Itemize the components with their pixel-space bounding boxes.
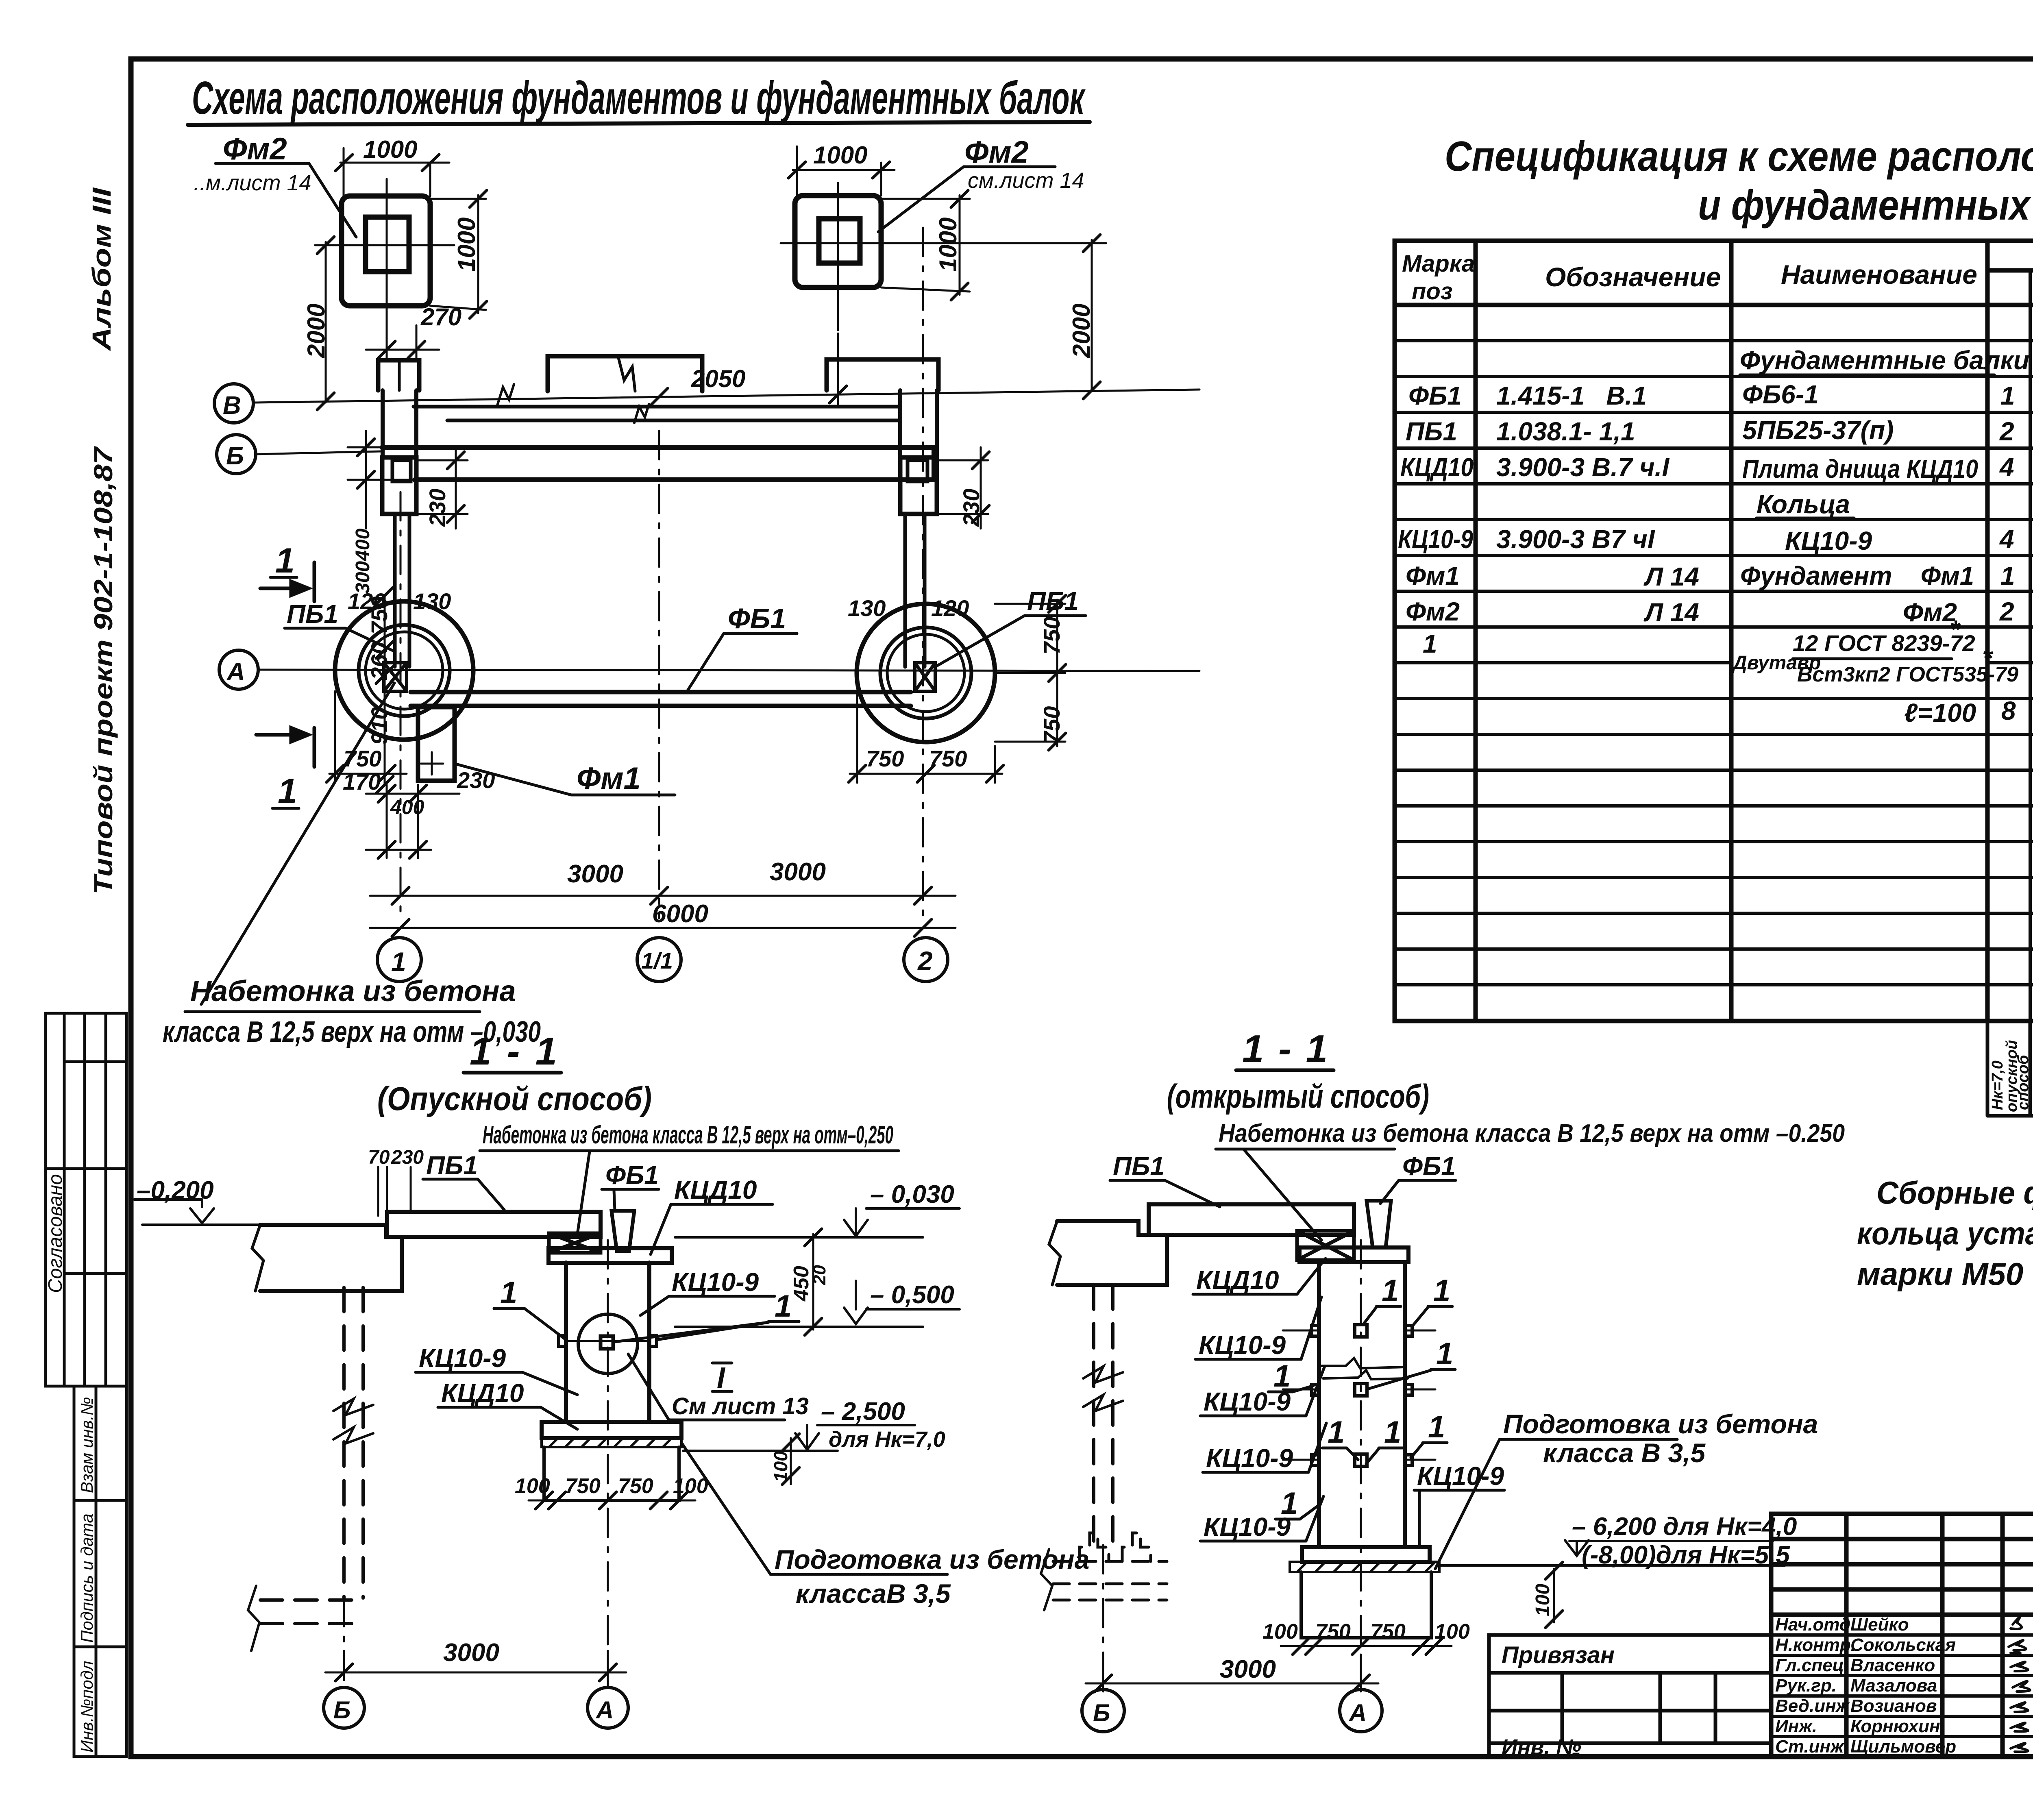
svg-text:ℓ=100: ℓ=100 [1904, 698, 1976, 727]
Фм1 foundation below left well [418, 707, 455, 781]
svg-text:4: 4 [1999, 525, 2014, 554]
svg-text:1000: 1000 [363, 136, 417, 163]
svg-text:ПБ1: ПБ1 [287, 599, 338, 629]
small column verticals [2030, 270, 2033, 1021]
svg-text:Типовой проект 902-1-108,87: Типовой проект 902-1-108,87 [89, 446, 118, 895]
svg-text:ФБ1: ФБ1 [605, 1160, 659, 1190]
well right: outer circle [857, 604, 995, 742]
beam ФБ1 between wells [411, 692, 911, 706]
svg-text:750: 750 [366, 597, 392, 634]
svg-text:и фундаментных балок: и фундаментных балок [1698, 182, 2033, 229]
hole circle in shaft [578, 1314, 638, 1374]
svg-text:– 2,500: – 2,500 [821, 1398, 905, 1426]
КЦ10-9 right label [672, 1267, 759, 1297]
svg-text:Согласовано: Согласовано [45, 1174, 66, 1293]
well right: inner rings [880, 627, 971, 718]
svg-text:Корнюхин: Корнюхин [1850, 1716, 1940, 1736]
axis B bubble [214, 384, 253, 423]
КЦД10 label [1196, 1265, 1279, 1295]
svg-text:2000: 2000 [303, 304, 330, 358]
svg-text:1: 1 [391, 947, 406, 977]
bottom plate [542, 1422, 681, 1438]
dim row 6000 [370, 919, 956, 936]
svg-text:КЦ10-9: КЦ10-9 [672, 1267, 759, 1297]
svg-text:1: 1 [500, 1276, 517, 1310]
svg-text:1.415-1 В.1: 1.415-1 В.1 [1496, 381, 1647, 410]
svg-text:2: 2 [1999, 417, 2014, 446]
axis 1 vertical dash-dot [400, 492, 402, 918]
dim 270 at axis 1 [366, 325, 439, 360]
svg-text:Возианов: Возианов [1850, 1696, 1937, 1716]
dim 300,400 left of beam [348, 431, 415, 529]
подготовка strip hatched [1290, 1562, 1439, 1572]
vertical dim chain right of right well: 750,750 [995, 595, 1066, 750]
КЦ10-9 right label [1417, 1461, 1504, 1491]
main title block frame [1771, 1514, 2033, 1757]
svg-text:170: 170 [343, 769, 381, 795]
column right above band [900, 390, 937, 457]
shaft centerline [607, 1240, 609, 1687]
svg-text:марки М50: марки М50 [1857, 1256, 2023, 1292]
svg-text:А: А [595, 1696, 614, 1724]
pit outline [544, 1447, 679, 1500]
svg-text:классаВ 3,5: классаВ 3,5 [796, 1578, 951, 1609]
svg-text:1-1: 1-1 [1242, 1027, 1328, 1071]
набетонка leader [1244, 1150, 1321, 1240]
svg-text:3.900-3 В.7 ч.I: 3.900-3 В.7 ч.I [1496, 453, 1669, 482]
svg-text:1000: 1000 [934, 218, 962, 272]
svg-text:750: 750 [565, 1474, 601, 1498]
подготовка callout [775, 1544, 1089, 1609]
dim 2000 vert, right footing to axis B [907, 235, 1106, 399]
wall tab 2 above axis B (with break) [548, 356, 702, 391]
svg-text:Фм1: Фм1 [1406, 561, 1460, 590]
svg-text:КЦ10-9: КЦ10-9 [1199, 1330, 1286, 1360]
svg-text:6000: 6000 [652, 900, 708, 928]
svg-text:Плита днища КЦД10: Плита днища КЦД10 [1742, 454, 1978, 483]
svg-text:Фм1: Фм1 [577, 761, 641, 796]
well shaft walls [566, 1263, 649, 1422]
callout 1 left [500, 1276, 517, 1310]
svg-text:Фундаментные балки: Фундаментные балки [1740, 346, 2029, 375]
svg-text:Фм2: Фм2 [223, 132, 287, 166]
Фм2 left label shelf + leader [215, 163, 356, 237]
dim 2050 between axis 1/1 and right footing [651, 333, 847, 407]
svg-text:1: 1 [1433, 1274, 1450, 1308]
svg-text:3000: 3000 [443, 1639, 499, 1667]
dashed footing at bottom (stepped) [1053, 1533, 1167, 1600]
svg-text:способ: способ [2015, 1054, 2032, 1110]
column left above band [383, 390, 416, 457]
svg-text:1: 1 [278, 772, 297, 811]
group heading underlines [1740, 374, 1994, 377]
table header texts [1402, 245, 2033, 308]
svg-text:для Нк=7,0: для Нк=7,0 [829, 1427, 945, 1452]
svg-text:А: А [226, 658, 245, 686]
svg-text:*: * [1950, 615, 1961, 644]
foundation Фм2 left: inner square [366, 217, 409, 272]
signature table verticals [1844, 1514, 1849, 1757]
grid bubble 2 [904, 938, 948, 982]
svg-text:2000: 2000 [1068, 304, 1095, 358]
svg-text:1.038.1- 1,1: 1.038.1- 1,1 [1496, 417, 1635, 446]
svg-text:8: 8 [2001, 696, 2016, 725]
dim 750 under left well [326, 691, 407, 783]
break marks on dashed wall [333, 1399, 373, 1415]
svg-text:260: 260 [366, 642, 392, 680]
svg-text:2050: 2050 [691, 365, 745, 392]
svg-text:Гл.спец: Гл.спец [1775, 1655, 1844, 1675]
svg-text:ПБ1: ПБ1 [1027, 586, 1079, 616]
svg-text:750: 750 [1370, 1620, 1406, 1644]
ПБ1 label left [287, 599, 338, 629]
Фм2 right label [964, 135, 1084, 193]
svg-text:1: 1 [1423, 629, 1437, 658]
svg-text:1: 1 [1328, 1415, 1345, 1450]
svg-text:Схема расположения фундаментов: Схема расположения фундаментов и фундаме… [192, 72, 1086, 124]
level -0,500 [870, 1281, 954, 1309]
svg-text:Наименование: Наименование [1781, 259, 1977, 290]
wall tab 3 above axis B [827, 359, 938, 390]
axis bubble А [588, 1687, 628, 1728]
см лист 13 [672, 1393, 809, 1419]
svg-text:Кольца: Кольца [1757, 490, 1850, 519]
dim 1000 vert, left footing [430, 190, 487, 318]
ПБ1 label [426, 1151, 478, 1180]
Согласовано stamp block [45, 1013, 126, 1386]
svg-text:ПБ1: ПБ1 [1113, 1152, 1165, 1181]
svg-text:2: 2 [1999, 597, 2014, 626]
svg-text:750: 750 [1039, 706, 1064, 744]
axis Б centerline [1102, 1545, 1104, 1688]
Фм2 right label shelf + leader [878, 167, 1055, 232]
svg-text:1: 1 [1428, 1410, 1445, 1444]
dim row 3000/3000 [370, 887, 956, 904]
svg-text:Обозначение: Обозначение [1545, 262, 1721, 292]
dim 1000 vert, right footing [881, 190, 970, 300]
subheader line under Кол на исполн [1987, 268, 2033, 273]
svg-text:КЦ10-9: КЦ10-9 [1785, 526, 1872, 555]
svg-text:Б: Б [226, 442, 244, 470]
svg-text:КЦ10-9: КЦ10-9 [419, 1343, 506, 1373]
svg-text:1: 1 [2000, 381, 2015, 410]
dim 3000 bottom [1086, 1659, 1378, 1692]
svg-text:поз: поз [1412, 278, 1452, 305]
подготовка callout right [1503, 1409, 1818, 1468]
joint plate center [601, 1336, 613, 1349]
section header 1-1 [377, 1030, 652, 1117]
well cap plate [1299, 1247, 1408, 1262]
dashed footing at bottom [260, 1600, 363, 1624]
dim 3000 bottom [325, 1651, 626, 1681]
plan title [192, 72, 1086, 124]
existing wall left [252, 1225, 402, 1291]
svg-text:Фм2: Фм2 [1903, 598, 1957, 627]
svg-text:230: 230 [457, 767, 495, 793]
svg-text:Сокольская: Сокольская [1850, 1635, 1956, 1655]
svg-text:Нач.отд.: Нач.отд. [1775, 1615, 1855, 1635]
joint line through shaft [566, 1340, 649, 1342]
well left: outer circle [335, 601, 473, 740]
joint level 2 [1283, 1384, 1435, 1396]
svg-text:КЦ10-9: КЦ10-9 [1417, 1461, 1504, 1491]
ПБ1 label right [1027, 586, 1079, 616]
svg-text:100: 100 [515, 1474, 550, 1498]
svg-text:1: 1 [1436, 1337, 1453, 1371]
beam end splice right (hatched) [915, 663, 935, 691]
ПБ1 slab strip in plan (upper) [414, 407, 900, 420]
svg-text:Б: Б [1093, 1699, 1110, 1726]
svg-text:– 0,030: – 0,030 [870, 1180, 954, 1208]
набетонка X-box [1297, 1231, 1354, 1260]
svg-text:ФБ1: ФБ1 [728, 603, 786, 634]
svg-text:20: 20 [810, 1265, 829, 1285]
svg-text:Инв.№подл: Инв.№подл [77, 1661, 96, 1753]
tail vertical captions [1989, 1023, 2033, 1113]
level -0,030 [870, 1180, 954, 1208]
break mark on slab strip [634, 404, 649, 423]
Фм2 left label [194, 132, 311, 195]
svg-text:100: 100 [1532, 1584, 1554, 1616]
dims 750 750 under right well [849, 691, 1003, 783]
spec title [1445, 133, 2033, 229]
section mark 1 lower [256, 728, 314, 767]
svg-text:Н.контр.: Н.контр. [1775, 1635, 1856, 1655]
КЦ10-9 left label [419, 1343, 506, 1373]
well shaft walls [1319, 1263, 1405, 1547]
svg-text:– 6,200 для Нк=4,0: – 6,200 для Нк=4,0 [1572, 1513, 1797, 1541]
svg-text:КЦ10-9: КЦ10-9 [1204, 1512, 1291, 1541]
svg-text:1: 1 [1281, 1486, 1298, 1521]
axis Б bubble [217, 435, 256, 474]
column head left (plan) [382, 457, 416, 514]
pit outline [1301, 1572, 1431, 1638]
набетонка X-box [549, 1233, 601, 1253]
КЦ10-9 labels left column [1199, 1330, 1293, 1541]
svg-text:Спецификация к схеме расположе: Спецификация к схеме расположения фундам… [1445, 133, 2033, 180]
Привязан box [1489, 1635, 1771, 1757]
well cap plate [549, 1248, 672, 1263]
svg-text:..м.лист 14: ..м.лист 14 [194, 171, 311, 195]
dim 230 below beam left [416, 447, 468, 529]
main column lines [1474, 241, 1478, 1021]
svg-text:1000: 1000 [453, 218, 480, 272]
svg-text:230: 230 [391, 1147, 424, 1168]
joint level 3 [1283, 1454, 1435, 1466]
left margin vertical captions [87, 187, 118, 895]
svg-text:(открытый способ): (открытый способ) [1167, 1078, 1429, 1115]
svg-text:Л 14: Л 14 [1643, 598, 1699, 627]
svg-text:ФБ1: ФБ1 [1402, 1152, 1456, 1181]
axis 1/1 vertical dash-dot [658, 431, 660, 918]
ПБ1 slab [387, 1212, 601, 1237]
dim 2000 vert, left footing to axis B [315, 237, 334, 410]
axis bubble Б [1082, 1689, 1124, 1732]
beam end splice left (hatched) [384, 663, 407, 691]
dim 20 450 [805, 1229, 822, 1335]
svg-text:750: 750 [1039, 617, 1064, 655]
lower stamp boxes [74, 1386, 126, 1757]
набетонка note [483, 1121, 893, 1149]
wall tab 1 above axis B [378, 360, 419, 390]
axis 2 vertical dash-dot [922, 228, 924, 918]
column right shaft lines [905, 514, 925, 667]
svg-text:1: 1 [1382, 1274, 1399, 1308]
svg-text:КЦД10: КЦД10 [674, 1175, 757, 1204]
svg-text:1/1: 1/1 [641, 948, 673, 973]
ФБ1 beam cross-section (trapezoid) [612, 1211, 634, 1251]
table data texts [1398, 346, 2033, 727]
upper small rows left part [1771, 1537, 2033, 1541]
svg-text:3.900-3 В7 чI: 3.900-3 В7 чI [1496, 525, 1655, 554]
column left shaft lines [395, 514, 409, 667]
foundation Фм2 right: inner square [819, 219, 860, 263]
svg-text:1000: 1000 [813, 142, 867, 169]
svg-text:I: I [717, 1362, 726, 1394]
axis bubble А [1340, 1689, 1382, 1732]
level -0,200 [137, 1176, 214, 1204]
ПБ1 label [1113, 1152, 1165, 1181]
svg-text:см.лист 14: см.лист 14 [968, 168, 1084, 193]
svg-text:Подготовка из бетона: Подготовка из бетона [1503, 1409, 1818, 1439]
vertical dim chain left of well: 750,260,910 [376, 587, 393, 793]
svg-text:3000: 3000 [1220, 1655, 1276, 1683]
svg-text:См лист 13: См лист 13 [672, 1393, 809, 1419]
svg-text:1: 1 [275, 541, 295, 580]
svg-text:кольца установить на цементном: кольца установить на цементном растворе [1857, 1215, 2033, 1251]
existing wall left [1049, 1221, 1167, 1285]
dim 70,230 [368, 1147, 424, 1168]
svg-text:130: 130 [848, 595, 886, 621]
dashed wall below (axis Б) [1094, 1285, 1113, 1545]
svg-text:Привязан: Привязан [1502, 1642, 1615, 1668]
svg-text:(Опускной способ): (Опускной способ) [377, 1080, 652, 1117]
ФБ1 label [605, 1160, 659, 1190]
Фм1 label [577, 761, 641, 796]
axis Б centerline [343, 1598, 345, 1687]
svg-text:КЦД10: КЦД10 [1400, 453, 1474, 482]
svg-text:Альбом III: Альбом III [87, 187, 116, 351]
foundation Фм2 right: outer square [795, 196, 881, 287]
svg-text:Щильмовер: Щильмовер [1850, 1737, 1956, 1757]
grid bubble 1/1 [637, 938, 681, 982]
svg-text:Фм2: Фм2 [964, 135, 1029, 170]
signature rows texts [1775, 1615, 1956, 1757]
I mark [717, 1362, 726, 1394]
svg-text:1: 1 [775, 1289, 792, 1324]
КЦД10 label [674, 1175, 757, 1204]
svg-text:2: 2 [917, 946, 933, 976]
axis A bubble [219, 650, 258, 689]
svg-text:КЦД10: КЦД10 [441, 1378, 524, 1408]
level -2,500 [821, 1398, 945, 1452]
svg-text:100: 100 [770, 1451, 791, 1482]
shaft centerline [1360, 1240, 1362, 1688]
svg-text:4: 4 [1999, 453, 2014, 482]
svg-text:– 0,500: – 0,500 [870, 1281, 954, 1309]
svg-text:Власенко: Власенко [1850, 1655, 1935, 1675]
dim 230 below beam right [937, 447, 989, 529]
svg-text:70: 70 [368, 1147, 390, 1168]
svg-text:3000: 3000 [770, 858, 826, 886]
svg-text:1: 1 [1273, 1359, 1291, 1393]
ПБ1 slab [1149, 1204, 1354, 1235]
header bottom [1395, 303, 2033, 307]
svg-text:1: 1 [1384, 1415, 1401, 1450]
svg-text:А: А [1348, 1699, 1367, 1726]
набетонка callout leader [201, 683, 394, 1004]
edge beam band (lower, thick) [382, 447, 934, 480]
svg-text:Набетонка из бетона класса В 1: Набетонка из бетона класса В 12,5 верх н… [1219, 1119, 1845, 1147]
набетонка text [163, 975, 541, 1048]
callout 1 marks [1273, 1274, 1453, 1521]
svg-text:Инв. №: Инв. № [1502, 1735, 1581, 1759]
ФБ1 label [728, 603, 786, 634]
svg-text:Марка: Марка [1402, 250, 1475, 277]
callout 1 right (double leader) [775, 1289, 792, 1324]
svg-text:Сборные фундаментные балки, пл: Сборные фундаментные балки, плиты и [1876, 1175, 2033, 1210]
svg-text:КЦ10-9: КЦ10-9 [1206, 1443, 1293, 1473]
svg-text:100: 100 [673, 1474, 708, 1498]
break marks on dashed wall [1083, 1366, 1123, 1382]
svg-text:270: 270 [420, 303, 461, 331]
svg-text:750: 750 [929, 746, 967, 771]
svg-text:ФБ1: ФБ1 [1408, 381, 1462, 410]
well left: inner rings [359, 625, 450, 716]
svg-text:Рук.гр.: Рук.гр. [1775, 1676, 1837, 1696]
svg-text:230: 230 [958, 489, 984, 527]
svg-text:1-1: 1-1 [470, 1030, 557, 1073]
svg-text:Подпись и дата: Подпись и дата [77, 1513, 96, 1643]
svg-text:КЦ10-9: КЦ10-9 [1398, 525, 1473, 554]
svg-text:Б: Б [333, 1696, 350, 1724]
table tail below (columns extension) [1987, 1021, 2033, 1116]
ФБ1 label [1402, 1152, 1456, 1181]
axis Б leader line [256, 451, 382, 454]
ФБ1 beam cross-section (trapezoid) [1367, 1201, 1391, 1247]
dim 100 (подготовка right section) [1545, 1562, 1563, 1628]
svg-text:Шейко: Шейко [1850, 1615, 1909, 1635]
svg-text:класса В 3,5: класса В 3,5 [1543, 1438, 1706, 1468]
joint flanges on walls [559, 1335, 566, 1346]
svg-text:Фм2: Фм2 [1406, 597, 1460, 626]
dim 1000 horiz, right footing [788, 146, 895, 196]
svg-text:Мазалова: Мазалова [1850, 1676, 1937, 1696]
КЦД10 left label [441, 1378, 524, 1408]
note text Сборные [1857, 1175, 2033, 1292]
svg-text:230: 230 [424, 489, 450, 527]
svg-text:300400: 300400 [352, 529, 374, 594]
svg-text:100: 100 [1262, 1620, 1298, 1644]
foundation Фм2 left: outer square [342, 196, 430, 306]
svg-text:750: 750 [866, 746, 904, 771]
row lines [1395, 341, 2033, 985]
svg-text:Набетонка из бетона: Набетонка из бетона [190, 975, 516, 1008]
svg-text:ПБ1: ПБ1 [426, 1151, 478, 1180]
svg-text:Ст.инж: Ст.инж [1775, 1737, 1845, 1757]
dashed wall below (axis Б) [344, 1287, 363, 1598]
level -6,200 [1572, 1513, 1797, 1569]
svg-text:Взам инв.№: Взам инв.№ [77, 1397, 96, 1493]
Фм2 right centerline vertical [837, 183, 839, 330]
Фм2 left centerline horizontal [315, 244, 454, 246]
svg-text:Набетонка из бетона класса В 1: Набетонка из бетона класса В 12,5 верх н… [483, 1121, 893, 1149]
break mark on axis B [497, 384, 514, 407]
svg-text:Вед.инж: Вед.инж [1775, 1696, 1850, 1716]
bottom plate [1302, 1547, 1430, 1562]
svg-text:Л 14: Л 14 [1643, 562, 1699, 591]
svg-text:3000: 3000 [567, 860, 623, 888]
